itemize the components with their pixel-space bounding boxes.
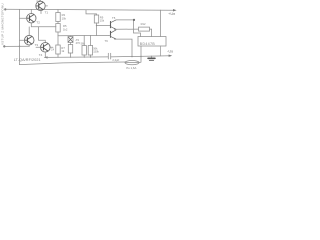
svg-text:T4: T4 [39, 53, 43, 57]
resistor R11 [88, 35, 92, 57]
svg-text:4,7k: 4,7k [36, 0, 41, 3]
svg-text:T5: T5 [112, 16, 116, 20]
transistor T4 [36, 43, 53, 58]
transistor T6 [109, 30, 117, 40]
resistor R7 [56, 45, 60, 54]
wire R3 to R5 [57, 22, 59, 24]
wire T2 emitter to resistor chain [31, 26, 56, 28]
transistor T5 [111, 20, 117, 30]
svg-text:2,2µF: 2,2µF [112, 58, 119, 62]
transistor T2 [20, 14, 37, 27]
node junction bus x141 [140, 56, 141, 57]
svg-text:150k: 150k [93, 50, 99, 54]
wire module pin to lower bus [160, 46, 162, 56]
module box BD447 [138, 37, 166, 47]
wire R12 to x160 vertical [150, 28, 152, 30]
wire chain vertical x58 [57, 10, 59, 13]
wire right rail arrowhead [173, 9, 177, 12]
svg-text:T3: T3 [35, 43, 39, 47]
wire module bottom pin to oval [140, 46, 142, 62]
node junction bus x132 [131, 56, 132, 57]
svg-text:R5: R5 [63, 24, 67, 28]
wire left bus arrowhead [44, 56, 48, 58]
resistor R3 [56, 13, 60, 22]
wire right bus arrowhead [169, 55, 173, 57]
node junction mark [133, 19, 135, 21]
svg-text:LT-QA/RF/2021: LT-QA/RF/2021 [14, 58, 41, 62]
svg-text:+UB: +UB [168, 11, 175, 16]
svg-text:T2: T2 [36, 21, 40, 25]
svg-text:R3: R3 [62, 13, 66, 17]
svg-text:T6: T6 [105, 39, 109, 43]
svg-text:-UB: -UB [167, 48, 173, 53]
fuse Po oval [125, 61, 141, 65]
wire mid bus [58, 34, 109, 36]
svg-text:T1: T1 [45, 11, 49, 15]
resistor R5 [56, 24, 60, 33]
resistor R8 below P1 [68, 45, 72, 54]
svg-text:1k2: 1k2 [63, 28, 68, 32]
transistor T1 [31, 0, 47, 14]
node junction input line [19, 46, 21, 48]
wire top supply rail [5, 8, 173, 11]
resistor R12 [139, 27, 150, 31]
wire bottom rail [19, 62, 125, 65]
wire input line [4, 45, 29, 47]
svg-text:VSTUP Z MAGNETOFONU: VSTUP Z MAGNETOFONU [0, 3, 4, 45]
svg-text:C4: C4 [51, 48, 55, 52]
wire lower bus right part [111, 56, 171, 57]
svg-text:10k: 10k [62, 16, 67, 20]
svg-text:Po 1,6A: Po 1,6A [126, 66, 136, 70]
svg-text:R12: R12 [141, 22, 146, 26]
resistor R9 [94, 15, 98, 23]
wire T5 collector run [116, 20, 141, 37]
wire T6 emitter to bus [116, 39, 132, 56]
wire rail jog to R9 [86, 10, 97, 15]
wire R5 down to mid bus [57, 32, 59, 36]
capacitor C5 in bus [108, 53, 110, 59]
wire x160 vertical rail to box [160, 10, 162, 36]
wire left vertical bus x=19.5 [18, 9, 20, 64]
node input top terminal [4, 8, 6, 10]
node junction base feed [96, 25, 97, 26]
wire R9 down to mid bus [96, 23, 98, 36]
wire chain to R7 [57, 36, 59, 45]
wire branch down to T4 [39, 27, 46, 43]
ground symbol [148, 56, 155, 60]
resistor R10 [82, 36, 86, 58]
transistor T3 [20, 27, 35, 47]
wire lower bus [45, 56, 109, 59]
wire T5 base feed [97, 25, 111, 27]
wire R8 to bus [70, 53, 72, 57]
node input bottom terminal [3, 45, 5, 47]
trimmer P1 [68, 36, 73, 45]
svg-text:56k: 56k [81, 42, 86, 46]
svg-text:15k: 15k [100, 19, 105, 23]
wire emitter line to R12 [116, 28, 139, 30]
wire R7 to bus [57, 54, 59, 57]
svg-text:R7: R7 [61, 46, 65, 50]
svg-text:BD447B: BD447B [140, 42, 156, 46]
